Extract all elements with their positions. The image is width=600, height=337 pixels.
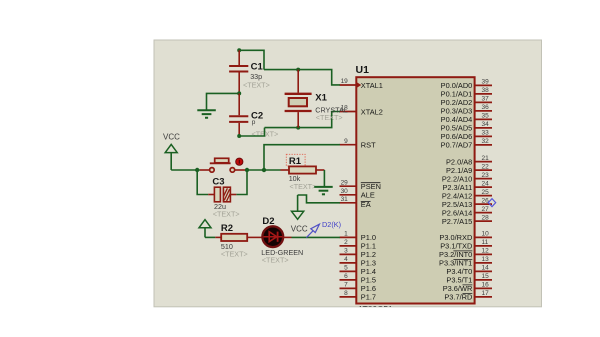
svg-text:34: 34 [482,121,490,128]
wire EA to VCC terminal [298,195,340,203]
U1 pin 19 (XTAL1) [340,78,383,90]
U1 pin 4 (P1.3) [340,256,377,268]
svg-text:<TEXT>: <TEXT> [262,256,289,265]
svg-text:36: 36 [482,104,490,111]
svg-text:RST: RST [361,141,376,150]
capacitor C3 (electrolytic) [208,187,236,202]
U1 pin 31 (EA) [340,196,371,209]
svg-text:38: 38 [482,87,490,94]
U1 pin 9 (RST) [340,138,377,150]
U1 pin 29 (PSEN) [340,179,381,191]
U1 pin 5 (P1.4) [340,265,377,277]
U1 pin 21 (P2.0/A8) [446,155,492,167]
push button (reset) [200,158,247,172]
ground (crystal caps) [197,110,216,117]
resistor R1 [281,166,325,173]
wire C2 bottom to crystal bottom row [239,128,264,136]
U1 pin 22 (P2.1/A9) [446,163,492,175]
svg-text:P3.7/RD: P3.7/RD [444,293,472,302]
svg-text:12: 12 [482,248,490,255]
svg-text:<TEXT>: <TEXT> [221,249,248,258]
U1 pin 13 (P3.3/INT1) [439,256,492,268]
svg-text:3: 3 [344,248,348,255]
svg-text:33p: 33p [250,72,262,81]
button state indicator [236,158,243,165]
svg-text:VCC: VCC [291,224,308,233]
node button left [195,168,199,172]
U1 pin 10 (P3.0/RXD) [439,231,492,243]
resistor R2 [215,234,263,241]
svg-text:1: 1 [344,231,348,238]
U1 pin 3 (P1.2) [340,248,377,260]
svg-text:24: 24 [482,180,490,187]
svg-text:P0.7/AD7: P0.7/AD7 [441,141,473,150]
R1 selection box [286,154,305,166]
wire crystal top row to XTAL1 pin [264,70,340,85]
svg-text:U1: U1 [356,64,370,76]
svg-text:p: p [252,119,256,126]
svg-text:10: 10 [482,231,490,238]
wire VCC to button [171,169,200,171]
U1 pin 26 (P2.5/A13) [442,197,492,209]
MCU U1 (AT89C51) [356,77,474,303]
svg-text:29: 29 [341,179,349,186]
U1 pin 25 (P2.4/A12) [442,189,492,201]
ground (R1) [314,187,333,194]
LED D2 [262,226,291,247]
svg-text:<TEXT>: <TEXT> [243,81,270,90]
wire crystal bottom row to XTAL2 pin [265,112,340,128]
U1 pin 28 (P2.7/A15) [442,214,492,226]
U1 pin 30 (ALE) [340,188,375,200]
svg-text:14: 14 [482,265,490,272]
svg-text:39: 39 [482,79,490,86]
power terminal VCC (button) [163,133,180,170]
svg-text:15: 15 [482,273,490,280]
svg-text:27: 27 [482,206,490,213]
svg-text:4: 4 [344,256,348,263]
svg-text:XTAL1: XTAL1 [361,81,383,90]
U1 pin 18 (XTAL2) [340,105,383,117]
svg-text:21: 21 [482,155,490,162]
wire button to R1 [247,169,281,171]
svg-text:C3: C3 [212,176,224,187]
svg-text:9: 9 [344,138,348,145]
U1 pin 35 (P0.4/AD4) [441,113,492,125]
node C1 top [237,48,241,52]
U1 pin 37 (P0.2/AD2) [441,96,492,108]
svg-text:X1: X1 [315,93,327,104]
U1 pin 36 (P0.3/AD3) [441,104,492,116]
node crystal top [296,68,300,72]
svg-text:19: 19 [341,78,349,85]
svg-text:32: 32 [482,138,490,145]
svg-text:2: 2 [344,239,348,246]
wire button right down to C3 [236,170,247,195]
svg-text:P2.7/A15: P2.7/A15 [442,217,472,226]
wire button left down to C3 [197,170,208,195]
svg-text:26: 26 [482,197,490,204]
U1 pin 34 (P0.5/AD5) [441,121,492,133]
svg-text:P1.7: P1.7 [361,293,376,302]
svg-text:7: 7 [344,282,348,289]
U1 pin 16 (P3.6/WR) [443,282,492,294]
U1 pin 27 (P2.6/A14) [442,206,492,218]
node button right [245,168,249,172]
U1 pin 33 (P0.6/AD6) [441,130,492,142]
svg-text:22: 22 [482,163,490,170]
svg-text:8: 8 [344,290,348,297]
U1 pin 12 (P3.2/INT0) [439,248,492,260]
svg-text:35: 35 [482,113,490,120]
U1 pin 11 (P3.1/TXD) [440,239,492,251]
svg-text:5: 5 [344,265,348,272]
cursor arrow [306,224,319,237]
svg-text:VCC: VCC [163,133,180,142]
U1 pin 23 (P2.2/A10) [442,172,492,184]
wire VCC to R2 [205,236,215,238]
U1 pin 6 (P1.5) [340,273,377,285]
wire D2 to P1.0 [292,236,340,238]
svg-text:31: 31 [341,196,349,203]
power terminal VCC (R2) [199,220,211,238]
svg-text:XTAL2: XTAL2 [361,107,383,116]
U1 pin 1 (P1.0) [340,231,377,243]
U1 pin 8 (P1.7) [340,290,377,302]
node crystal bottom [296,126,300,130]
crystal X1 [285,70,312,128]
U1 pin 38 (P0.1/AD1) [441,87,492,99]
svg-text:ALE: ALE [361,191,375,200]
svg-text:17: 17 [482,290,490,297]
wire midpoint to ground [207,93,240,109]
svg-text:25: 25 [482,189,490,196]
node marker (P2.5 stub) [488,199,495,207]
svg-text:<TEXT>: <TEXT> [290,182,317,191]
wire C1 top to XTAL1 row [239,50,264,69]
svg-text:11: 11 [482,239,489,246]
capacitor C2 [229,93,248,136]
svg-text:23: 23 [482,172,490,179]
node RST branch [262,168,266,172]
svg-text:28: 28 [482,214,490,221]
svg-text:6: 6 [344,273,348,280]
wire to RST pin [264,145,340,170]
U1 pin 7 (P1.6) [340,282,377,294]
U1 pin 17 (P3.7/RD) [444,290,492,302]
node C2 bottom [237,134,241,138]
svg-text:<TEXT>: <TEXT> [316,113,343,122]
U1 pin 14 (P3.4/T0) [446,265,492,277]
U1 pin 32 (P0.7/AD7) [441,138,492,150]
svg-text:R2: R2 [221,223,233,234]
svg-text:13: 13 [482,256,490,263]
wire R1 to ground [323,170,325,186]
svg-text:16: 16 [482,282,490,289]
U1 pin 24 (P2.3/A11) [442,180,492,192]
svg-text:37: 37 [482,96,490,103]
U1 pin 2 (P1.1) [340,239,377,251]
svg-text:30: 30 [341,188,349,195]
node C1/C2 midpoint [237,91,241,95]
power terminal VCC (EA) [291,195,308,233]
svg-text:C1: C1 [251,61,264,72]
U1 pin 15 (P3.5/T1) [446,273,492,285]
capacitor C1 [229,50,248,93]
svg-text:D2(K): D2(K) [322,220,341,229]
U1 pin 39 (P0.0/AD0) [441,79,492,91]
svg-text:<TEXT>: <TEXT> [213,210,240,219]
svg-text:33: 33 [482,130,490,137]
